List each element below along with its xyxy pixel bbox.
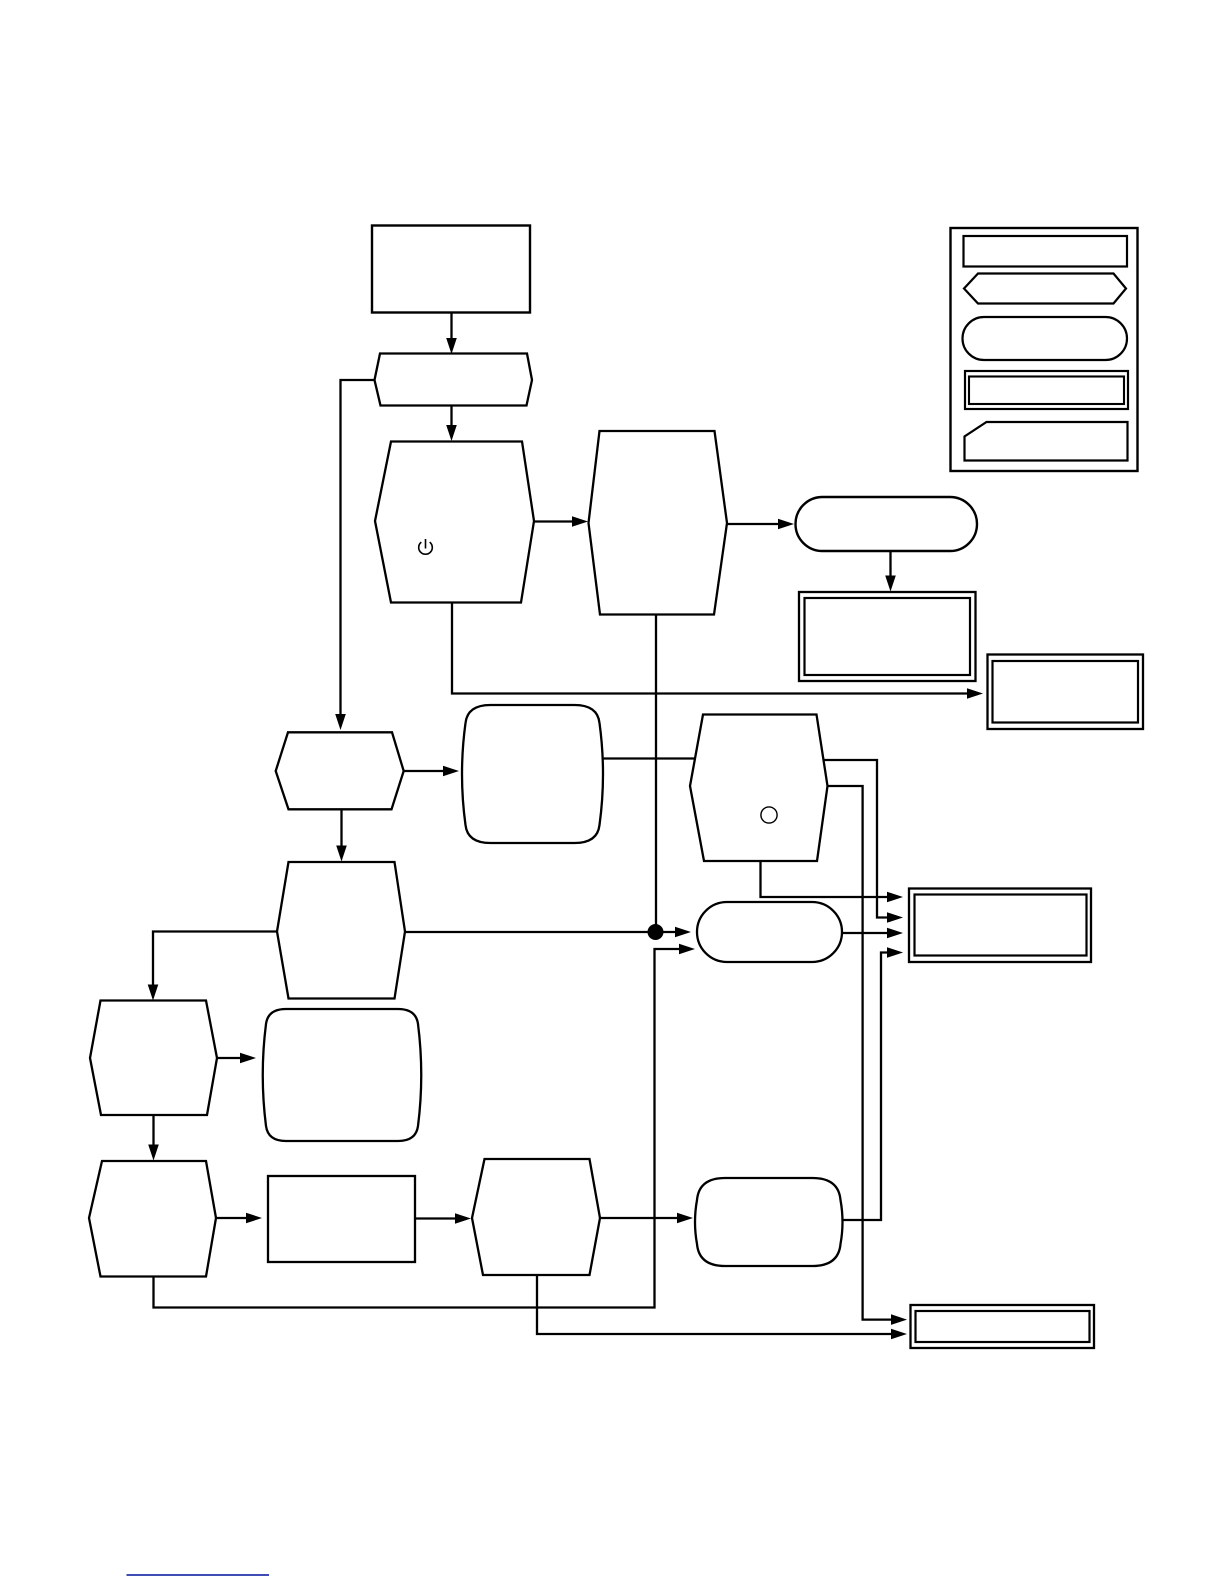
arrow R1 to P — [446, 313, 457, 355]
hexagon H6 — [472, 1159, 600, 1275]
arrow H2 to S1 — [727, 519, 794, 530]
rectangle R1 (top process box) — [372, 226, 530, 313]
arrow SH to M — [336, 809, 347, 861]
legend double rectangle outer — [965, 371, 1128, 409]
wire stored1 to H3 — [603, 757, 696, 759]
legend stadium — [963, 317, 1128, 360]
arrow P to H1 — [446, 406, 457, 442]
stadium S1 — [796, 497, 978, 551]
arrow H4 to stored2 — [217, 1053, 256, 1064]
rectangle R2 — [268, 1176, 415, 1262]
wire H1 bottom to DR2 — [452, 603, 983, 699]
double rectangle DR3 outer — [909, 889, 1091, 963]
double rectangle DR1 inner — [805, 598, 971, 675]
hexagon H4 — [90, 1001, 217, 1116]
double rectangle DR1 outer — [799, 592, 976, 681]
arrow S1 to DR1 — [885, 551, 896, 592]
hexagon P (preparation, wide flat) — [375, 354, 533, 406]
hexagon H2 — [589, 431, 728, 615]
wire H3 right vertex to DR4 (arrow 1) — [828, 786, 908, 1325]
blue line bottom left — [127, 1574, 270, 1576]
arrow H1 to H2 — [534, 516, 588, 527]
power icon in H1 — [419, 539, 433, 554]
arrow H5 to R2 — [216, 1213, 262, 1224]
stadium S3 (tall rounded) — [695, 1178, 843, 1266]
junction dot — [648, 924, 664, 940]
wire S2 right to DR3 (arrow 3) — [842, 928, 903, 939]
hexagon H5 — [89, 1161, 216, 1277]
wire S3 right up to DR3 (arrow 4) — [843, 947, 904, 1220]
hexagon H3 (with circle icon) — [690, 715, 828, 862]
arrow SH to stored1 — [404, 766, 459, 777]
wire H6 bottom to DR4 (arrow 2) — [537, 1275, 907, 1339]
double rectangle DR2 outer — [988, 655, 1144, 730]
circle icon in H3 — [761, 807, 777, 823]
wire M right vertex through dot to S2 — [405, 927, 691, 938]
double rectangle DR4 outer — [911, 1305, 1095, 1348]
hexagon H1 (with power icon) — [375, 442, 534, 603]
legend hexagon — [964, 274, 1126, 304]
wire H3 bottom to DR3 (arrow 1) — [761, 861, 904, 902]
double rectangle DR3 inner — [915, 895, 1087, 956]
arrow R2 to H6 — [415, 1213, 471, 1224]
wire M left vertex to H4 — [148, 932, 277, 1001]
legend outer box — [951, 228, 1138, 471]
legend double rectangle inner — [969, 377, 1124, 405]
arrow H4 to H5 — [148, 1115, 159, 1161]
hexagon M (middle left) — [277, 862, 405, 999]
arrow H6 to S3 — [600, 1213, 693, 1224]
wire H5 bottom to S2 (lower arrow) — [154, 944, 696, 1308]
hexagon SH (small, above M) — [276, 732, 404, 809]
barrel stored2 (curved-side storage shape) — [263, 1009, 422, 1141]
double rectangle DR4 inner — [916, 1311, 1090, 1342]
barrel stored1 (curved-side storage shape) — [462, 705, 603, 843]
wire H3 upper right edge to DR3 (arrow 2) — [824, 760, 904, 923]
legend rectangle — [964, 236, 1128, 267]
wire H2 bottom down to junction dot — [655, 615, 657, 929]
legend card (cut corner) — [965, 422, 1128, 461]
double rectangle DR2 inner — [993, 661, 1139, 723]
stadium S2 — [697, 902, 842, 962]
wire P left vertex down to SH — [335, 380, 374, 730]
